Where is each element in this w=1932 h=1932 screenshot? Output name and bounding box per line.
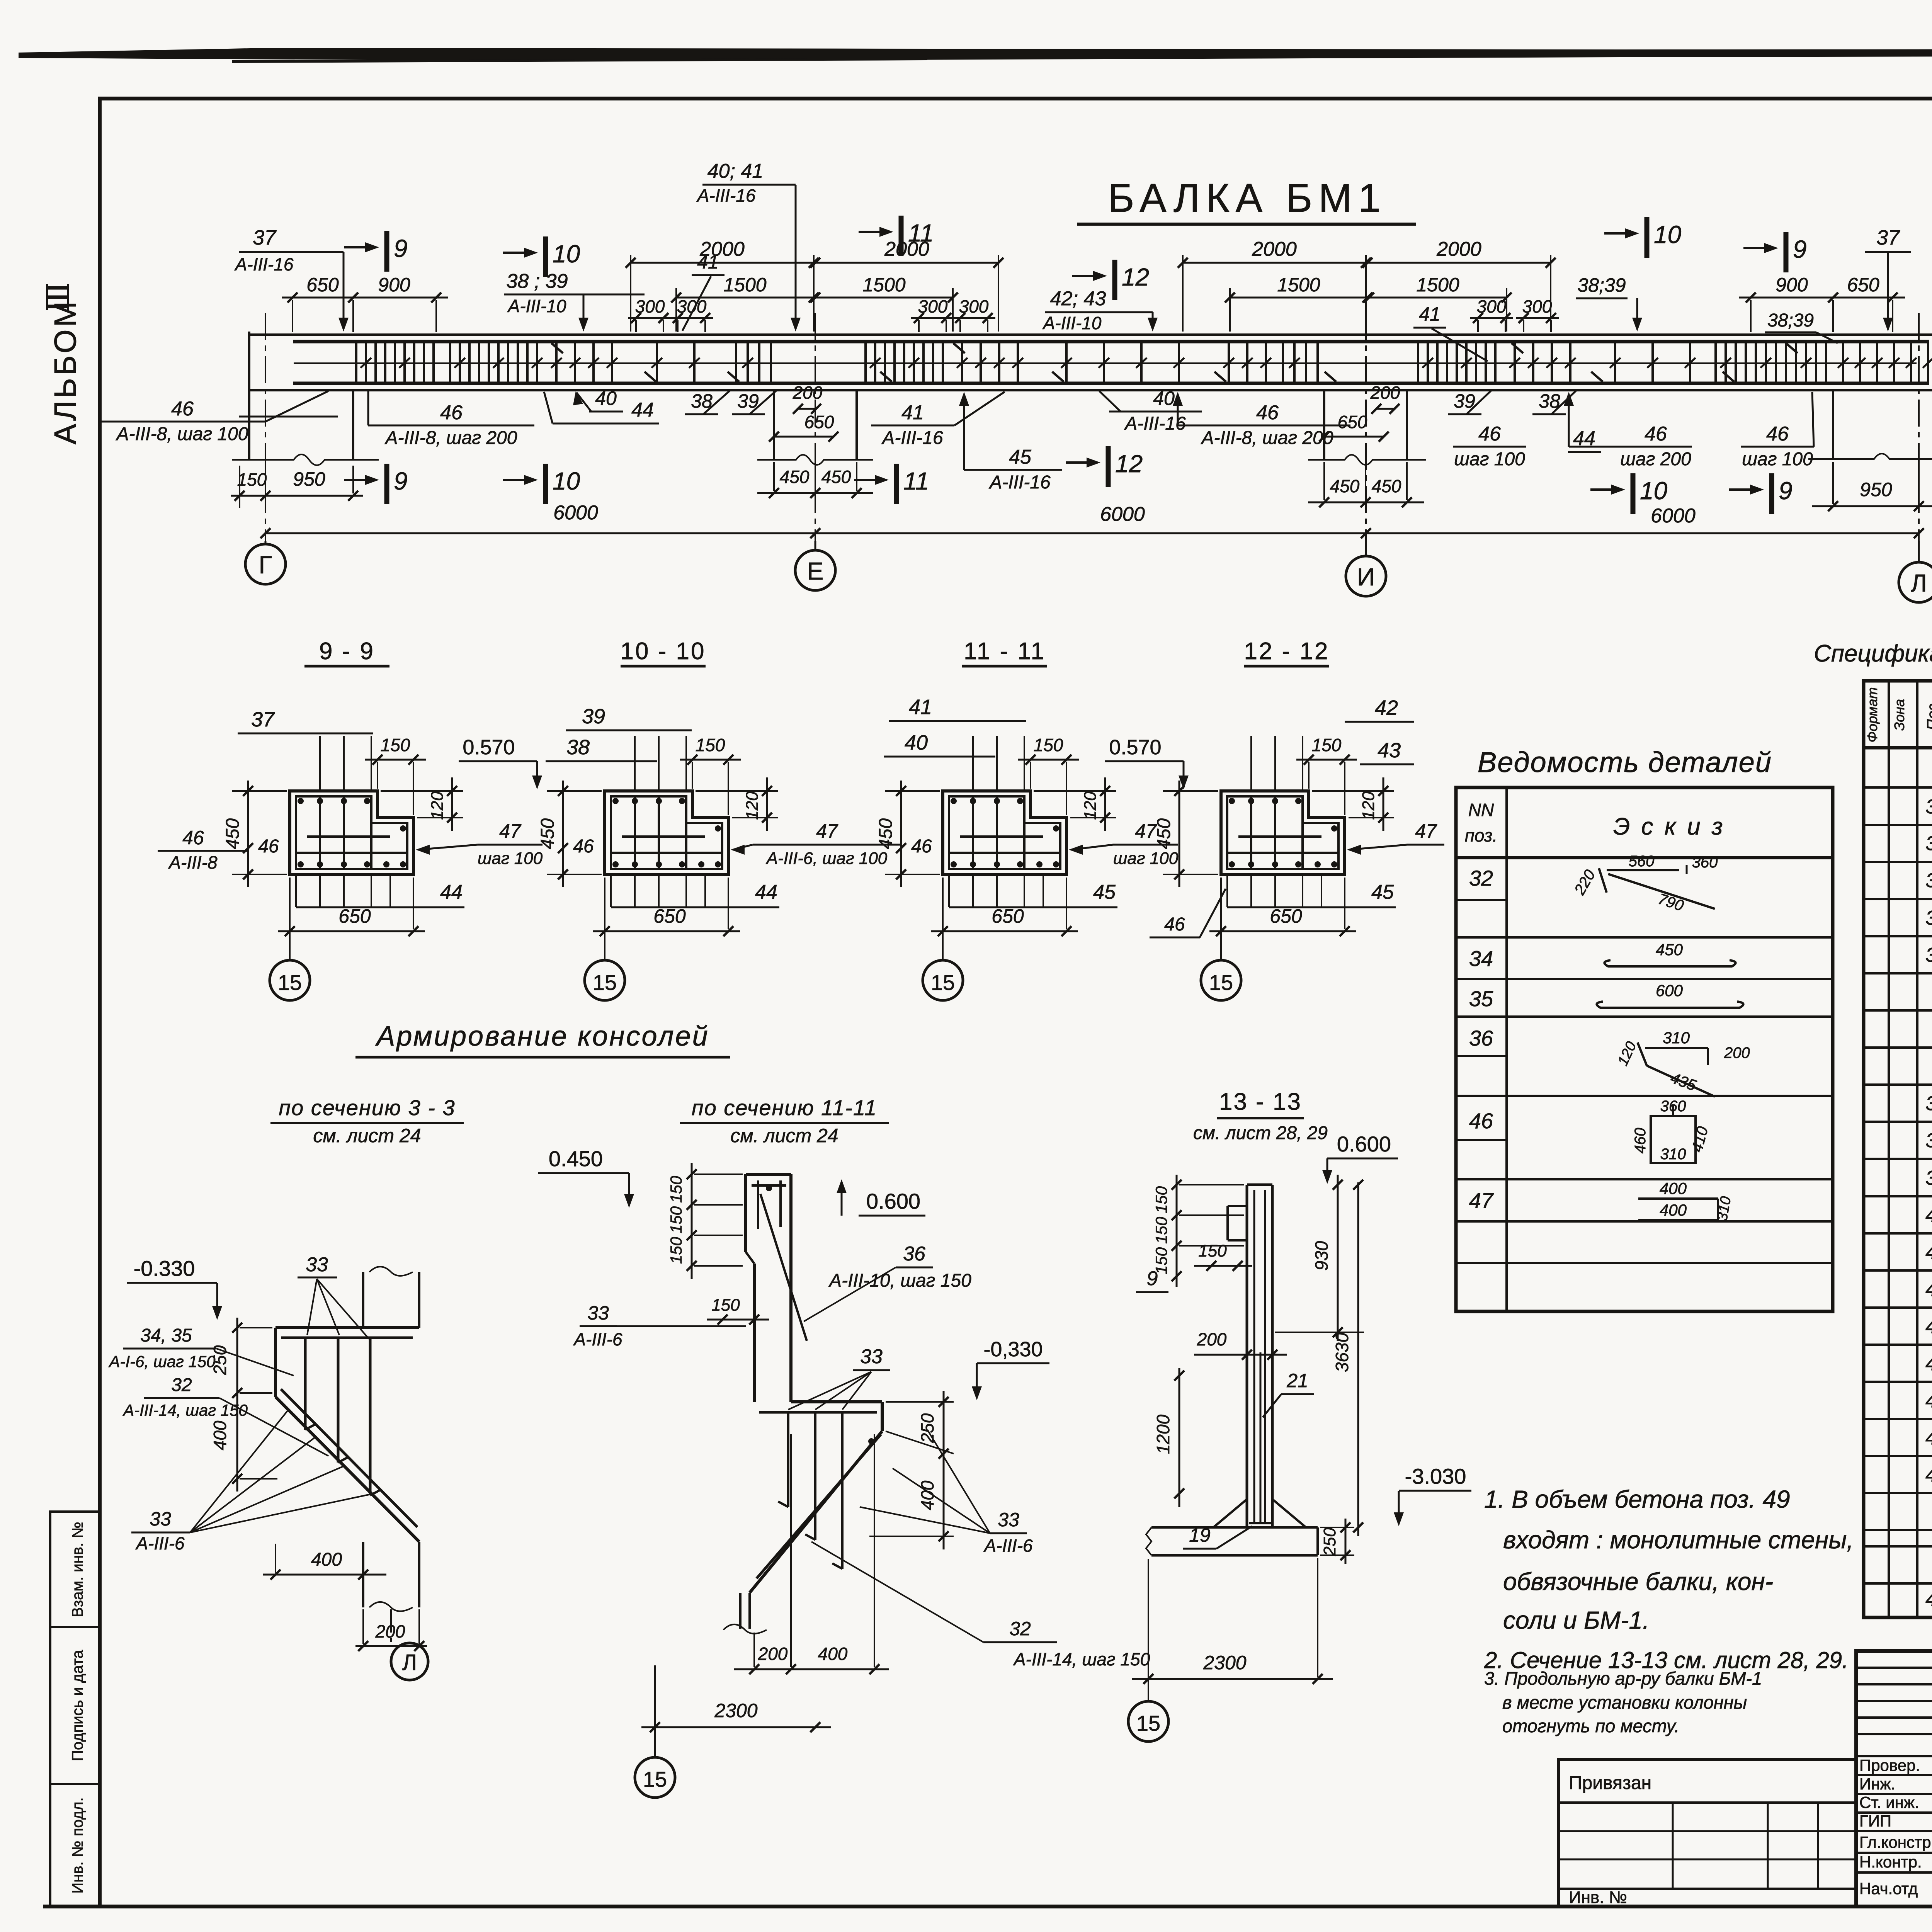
svg-text:32: 32 xyxy=(1009,1618,1031,1639)
svg-text:0.570: 0.570 xyxy=(1109,736,1161,759)
svg-text:Л: Л xyxy=(1911,569,1927,597)
svg-text:310: 310 xyxy=(1663,1029,1690,1047)
svg-text:200: 200 xyxy=(1197,1329,1227,1349)
svg-text:6000: 6000 xyxy=(1651,505,1696,527)
svg-text:входят : монолитные стены,: входят : монолитные стены, xyxy=(1503,1526,1854,1554)
svg-text:А-III-16: А-III-16 xyxy=(988,472,1051,493)
svg-text:соли и БМ-1.: соли и БМ-1. xyxy=(1503,1606,1650,1634)
svg-text:11 - 11: 11 - 11 xyxy=(964,638,1046,665)
svg-text:13 - 13: 13 - 13 xyxy=(1219,1088,1302,1115)
svg-text:38 ; 39: 38 ; 39 xyxy=(506,270,568,293)
svg-text:40: 40 xyxy=(905,731,928,754)
svg-text:И: И xyxy=(1357,563,1375,591)
svg-text:А-III-8, шаг 100: А-III-8, шаг 100 xyxy=(116,424,248,444)
svg-text:120: 120 xyxy=(743,791,762,820)
svg-text:0.570: 0.570 xyxy=(463,736,515,759)
svg-text:33: 33 xyxy=(1925,832,1932,855)
svg-text:шаг 100: шаг 100 xyxy=(1742,449,1813,469)
svg-text:41: 41 xyxy=(901,401,924,424)
svg-text:35: 35 xyxy=(1469,986,1493,1011)
svg-text:150: 150 xyxy=(1152,1186,1170,1213)
svg-text:А-III-6: А-III-6 xyxy=(135,1533,185,1553)
svg-text:Л: Л xyxy=(402,1650,417,1675)
svg-text:1500: 1500 xyxy=(1277,274,1320,296)
svg-text:34: 34 xyxy=(1469,946,1493,971)
svg-text:А-III-16: А-III-16 xyxy=(696,185,756,206)
svg-text:950: 950 xyxy=(1860,479,1892,500)
svg-text:А-III-6, шаг 100: А-III-6, шаг 100 xyxy=(765,849,888,868)
svg-text:по сечению 11-11: по сечению 11-11 xyxy=(692,1095,877,1120)
svg-text:37: 37 xyxy=(253,226,277,249)
svg-text:0.450: 0.450 xyxy=(549,1146,603,1171)
svg-text:120: 120 xyxy=(428,791,447,820)
svg-text:49: 49 xyxy=(1925,1588,1932,1611)
svg-text:43: 43 xyxy=(1378,739,1401,762)
svg-text:46: 46 xyxy=(258,836,279,857)
svg-text:Инж.: Инж. xyxy=(1859,1775,1895,1793)
svg-text:950: 950 xyxy=(293,468,325,490)
svg-text:46: 46 xyxy=(1645,423,1667,445)
svg-text:450: 450 xyxy=(1656,940,1683,959)
svg-text:38: 38 xyxy=(1925,1129,1932,1152)
svg-text:41: 41 xyxy=(1925,1241,1932,1264)
svg-text:1500: 1500 xyxy=(1416,274,1459,296)
svg-text:650: 650 xyxy=(653,905,686,927)
svg-text:47: 47 xyxy=(499,820,522,842)
svg-text:-0,330: -0,330 xyxy=(983,1338,1043,1361)
svg-text:9: 9 xyxy=(1793,235,1807,263)
svg-text:Г: Г xyxy=(259,551,272,579)
svg-text:11: 11 xyxy=(903,467,929,495)
svg-text:650: 650 xyxy=(306,274,339,296)
svg-text:А-III-6: А-III-6 xyxy=(573,1329,622,1349)
svg-text:300: 300 xyxy=(959,296,989,316)
svg-text:32: 32 xyxy=(1469,866,1493,890)
svg-text:33: 33 xyxy=(150,1508,171,1530)
svg-text:10: 10 xyxy=(553,240,580,268)
svg-text:38: 38 xyxy=(566,736,590,759)
svg-text:400: 400 xyxy=(210,1420,230,1450)
svg-text:38;39: 38;39 xyxy=(1767,310,1814,331)
svg-text:44: 44 xyxy=(1925,1352,1932,1375)
svg-text:-3.030: -3.030 xyxy=(1405,1464,1466,1488)
svg-text:150: 150 xyxy=(667,1236,685,1264)
svg-text:42; 43: 42; 43 xyxy=(1050,287,1106,310)
svg-text:200: 200 xyxy=(758,1644,788,1664)
svg-text:250: 250 xyxy=(210,1345,230,1375)
svg-text:46: 46 xyxy=(171,398,194,420)
svg-text:11: 11 xyxy=(908,219,934,247)
svg-text:12: 12 xyxy=(1122,263,1149,291)
svg-text:46: 46 xyxy=(573,836,594,857)
svg-text:47: 47 xyxy=(1415,820,1437,842)
svg-text:40: 40 xyxy=(1153,388,1175,409)
svg-text:1500: 1500 xyxy=(723,274,766,296)
svg-text:450: 450 xyxy=(1154,818,1174,849)
svg-text:200: 200 xyxy=(375,1621,405,1641)
svg-text:А-III-16: А-III-16 xyxy=(234,254,294,274)
svg-text:0.600: 0.600 xyxy=(866,1189,920,1213)
svg-text:10: 10 xyxy=(1640,477,1668,505)
svg-text:А-I-6, шаг 150: А-I-6, шаг 150 xyxy=(108,1352,216,1371)
svg-text:АЛЬБОМ: АЛЬБОМ xyxy=(48,299,82,445)
svg-text:150: 150 xyxy=(1152,1216,1170,1244)
svg-text:41: 41 xyxy=(697,251,719,273)
svg-text:21: 21 xyxy=(1286,1370,1308,1391)
svg-text:9: 9 xyxy=(394,467,408,495)
svg-text:300: 300 xyxy=(1522,296,1552,316)
svg-text:150: 150 xyxy=(667,1206,685,1233)
svg-text:46: 46 xyxy=(1256,401,1279,424)
svg-text:35: 35 xyxy=(1925,907,1932,929)
svg-text:200: 200 xyxy=(1370,383,1400,403)
svg-text:см. лист 28, 29: см. лист 28, 29 xyxy=(1193,1123,1328,1143)
svg-text:9: 9 xyxy=(1779,477,1793,505)
svg-text:9: 9 xyxy=(1147,1267,1158,1290)
svg-text:Формат: Формат xyxy=(1864,687,1880,743)
svg-text:3630: 3630 xyxy=(1332,1332,1352,1372)
svg-text:Привязан: Привязан xyxy=(1569,1773,1651,1793)
svg-text:БАЛКА БМ1: БАЛКА БМ1 xyxy=(1108,176,1386,221)
svg-text:200: 200 xyxy=(793,383,823,403)
svg-text:400: 400 xyxy=(1660,1179,1687,1197)
svg-text:А-III-10, шаг 150: А-III-10, шаг 150 xyxy=(828,1270,971,1291)
svg-text:3. Продольную ар-ру балки Б: 3. Продольную ар-ру балки БМ-1 xyxy=(1484,1668,1762,1689)
svg-text:см. лист 24: см. лист 24 xyxy=(730,1125,838,1146)
svg-text:33: 33 xyxy=(587,1302,609,1324)
svg-text:Ведомость деталей: Ведомость деталей xyxy=(1478,746,1772,778)
svg-text:в месте установки колонны: в месте установки колонны xyxy=(1502,1692,1747,1713)
svg-text:шаг 100: шаг 100 xyxy=(478,849,543,868)
svg-text:6000: 6000 xyxy=(1100,503,1145,526)
svg-text:15: 15 xyxy=(1209,970,1233,995)
svg-text:Е: Е xyxy=(807,557,824,585)
svg-text:46: 46 xyxy=(1469,1109,1493,1133)
svg-text:39: 39 xyxy=(582,705,605,728)
svg-text:150: 150 xyxy=(1198,1242,1227,1260)
svg-text:300: 300 xyxy=(635,296,665,316)
svg-text:45: 45 xyxy=(1009,446,1032,468)
svg-text:Взам. инв. №: Взам. инв. № xyxy=(69,1522,86,1617)
svg-text:930: 930 xyxy=(1311,1241,1332,1270)
svg-text:150: 150 xyxy=(667,1175,685,1203)
svg-text:А-III-10: А-III-10 xyxy=(507,296,566,316)
svg-text:360: 360 xyxy=(1692,854,1718,871)
svg-text:Н.контр.: Н.контр. xyxy=(1859,1853,1922,1871)
svg-text:300: 300 xyxy=(1477,296,1507,316)
svg-text:900: 900 xyxy=(378,274,410,296)
svg-text:9: 9 xyxy=(394,235,408,262)
svg-text:А-III-16: А-III-16 xyxy=(881,428,943,448)
svg-text:15: 15 xyxy=(643,1767,667,1791)
svg-text:400: 400 xyxy=(818,1644,848,1664)
svg-text:см. лист 24: см. лист 24 xyxy=(313,1125,421,1146)
svg-text:1500: 1500 xyxy=(862,274,905,296)
svg-text:200: 200 xyxy=(1724,1044,1750,1061)
svg-text:450: 450 xyxy=(223,818,243,849)
svg-text:10 - 10: 10 - 10 xyxy=(620,638,706,665)
svg-text:150: 150 xyxy=(1312,735,1342,755)
svg-text:шаг 200: шаг 200 xyxy=(1620,449,1691,469)
svg-text:250: 250 xyxy=(1320,1527,1339,1556)
svg-text:43: 43 xyxy=(1925,1315,1932,1338)
svg-text:450: 450 xyxy=(821,467,851,487)
svg-text:Провер.: Провер. xyxy=(1859,1756,1920,1774)
svg-text:33: 33 xyxy=(860,1345,883,1368)
svg-text:47: 47 xyxy=(1469,1188,1494,1213)
svg-text:10: 10 xyxy=(1654,221,1682,248)
svg-text:650: 650 xyxy=(1338,412,1367,432)
svg-text:2300: 2300 xyxy=(1203,1652,1246,1673)
svg-text:15: 15 xyxy=(931,970,955,995)
svg-text:2300: 2300 xyxy=(714,1700,757,1721)
svg-text:650: 650 xyxy=(1270,905,1302,927)
svg-text:36: 36 xyxy=(1469,1026,1493,1050)
svg-text:36: 36 xyxy=(903,1243,925,1265)
svg-text:32: 32 xyxy=(171,1375,192,1395)
svg-text:37: 37 xyxy=(1876,226,1900,249)
svg-text:Спецификация монолитных стен,: Спецификация монолитных стен, обвязочных… xyxy=(1814,640,1932,667)
svg-text:650: 650 xyxy=(804,412,834,432)
svg-text:32: 32 xyxy=(1925,796,1932,818)
svg-text:150: 150 xyxy=(237,469,267,490)
svg-text:отогнуть по месту.: отогнуть по месту. xyxy=(1502,1716,1679,1736)
svg-text:39: 39 xyxy=(1925,1167,1932,1189)
svg-text:А-III-14, шаг 150: А-III-14, шаг 150 xyxy=(1013,1649,1150,1669)
svg-text:650: 650 xyxy=(992,905,1024,927)
svg-text:460: 460 xyxy=(1632,1128,1649,1154)
svg-text:40; 41: 40; 41 xyxy=(707,160,764,182)
svg-text:46: 46 xyxy=(182,827,204,849)
svg-text:по сечению 3 - 3: по сечению 3 - 3 xyxy=(279,1095,455,1120)
svg-text:19: 19 xyxy=(1189,1524,1211,1546)
svg-text:150: 150 xyxy=(696,735,725,755)
svg-text:46: 46 xyxy=(911,836,932,857)
svg-text:46: 46 xyxy=(1766,423,1789,445)
svg-text:Поз.: Поз. xyxy=(1924,699,1932,731)
svg-text:12 - 12: 12 - 12 xyxy=(1244,638,1329,665)
svg-text:1. В объем бетона поз. 49: 1. В объем бетона поз. 49 xyxy=(1484,1485,1790,1513)
svg-text:45: 45 xyxy=(1371,881,1394,903)
svg-text:поз.: поз. xyxy=(1465,825,1498,845)
svg-text:47: 47 xyxy=(1925,1464,1932,1486)
svg-text:45: 45 xyxy=(1925,1389,1932,1412)
svg-text:А-III-10: А-III-10 xyxy=(1042,313,1102,333)
svg-text:34, 35: 34, 35 xyxy=(140,1325,192,1346)
svg-text:0.600: 0.600 xyxy=(1337,1132,1391,1156)
svg-text:300: 300 xyxy=(918,296,948,316)
svg-text:6000: 6000 xyxy=(553,502,598,524)
svg-text:40: 40 xyxy=(1925,1204,1932,1226)
svg-text:Зона: Зона xyxy=(1891,699,1907,731)
svg-text:120: 120 xyxy=(1081,791,1100,820)
svg-text:обвязочные балки, кон-: обвязочные балки, кон- xyxy=(1503,1568,1773,1595)
svg-text:44: 44 xyxy=(755,881,777,903)
svg-text:250: 250 xyxy=(917,1413,937,1443)
svg-text:150: 150 xyxy=(1034,735,1063,755)
svg-text:9 - 9: 9 - 9 xyxy=(319,638,375,665)
svg-text:560: 560 xyxy=(1629,853,1655,870)
svg-text:-0.330: -0.330 xyxy=(134,1256,195,1281)
svg-text:шаг 100: шаг 100 xyxy=(1454,449,1525,469)
svg-text:450: 450 xyxy=(780,467,810,487)
svg-text:46: 46 xyxy=(1925,1427,1932,1449)
svg-text:41: 41 xyxy=(909,696,932,719)
svg-text:Нач.отд: Нач.отд xyxy=(1859,1879,1918,1898)
svg-text:15: 15 xyxy=(278,970,302,995)
svg-text:42: 42 xyxy=(1375,696,1398,719)
svg-text:ГИП: ГИП xyxy=(1859,1812,1891,1830)
svg-text:А-III-8: А-III-8 xyxy=(168,852,218,872)
svg-text:37: 37 xyxy=(251,708,275,731)
svg-text:12: 12 xyxy=(1115,450,1143,478)
svg-text:37: 37 xyxy=(1925,1092,1932,1115)
svg-text:А-III-8, шаг 200: А-III-8, шаг 200 xyxy=(1201,428,1333,448)
svg-text:450: 450 xyxy=(1372,476,1401,496)
svg-text:650: 650 xyxy=(338,905,371,927)
svg-text:46: 46 xyxy=(1478,423,1501,445)
svg-text:41: 41 xyxy=(1419,303,1440,325)
svg-text:150: 150 xyxy=(711,1296,740,1315)
svg-text:400: 400 xyxy=(1660,1201,1687,1219)
svg-text:40: 40 xyxy=(595,388,617,409)
svg-text:44: 44 xyxy=(631,399,654,421)
svg-text:44: 44 xyxy=(1573,427,1595,450)
svg-text:15: 15 xyxy=(593,970,617,995)
svg-text:900: 900 xyxy=(1776,274,1808,296)
svg-text:33: 33 xyxy=(998,1509,1019,1531)
svg-text:46: 46 xyxy=(1164,914,1185,935)
svg-text:Ст. инж.: Ст. инж. xyxy=(1859,1793,1919,1811)
svg-text:44: 44 xyxy=(440,881,463,903)
svg-text:600: 600 xyxy=(1656,981,1683,1000)
svg-text:Армирование консолей: Армирование консолей xyxy=(375,1021,709,1052)
svg-text:42: 42 xyxy=(1925,1278,1932,1301)
svg-text:400: 400 xyxy=(311,1549,342,1570)
svg-text:36: 36 xyxy=(1925,944,1932,966)
svg-text:47: 47 xyxy=(816,820,838,842)
svg-text:А-III-6: А-III-6 xyxy=(983,1536,1033,1556)
svg-text:1200: 1200 xyxy=(1153,1414,1173,1454)
svg-text:33: 33 xyxy=(306,1253,328,1276)
svg-text:А-III-8, шаг 200: А-III-8, шаг 200 xyxy=(384,428,517,448)
svg-text:Подпись и дата: Подпись и дата xyxy=(69,1650,86,1761)
svg-text:310: 310 xyxy=(1660,1146,1686,1163)
svg-text:120: 120 xyxy=(1359,791,1378,820)
svg-text:34: 34 xyxy=(1925,869,1932,892)
svg-text:Гл.констр: Гл.констр xyxy=(1859,1833,1931,1851)
svg-text:450: 450 xyxy=(1330,476,1360,496)
svg-text:Инв. №: Инв. № xyxy=(1569,1888,1627,1907)
svg-text:2000: 2000 xyxy=(1436,238,1481,260)
svg-text:2000: 2000 xyxy=(1252,238,1297,260)
svg-text:450: 450 xyxy=(537,818,558,849)
svg-text:46: 46 xyxy=(440,401,463,424)
svg-text:15: 15 xyxy=(1136,1711,1160,1735)
svg-text:Инв. № подл.: Инв. № подл. xyxy=(69,1797,86,1893)
svg-text:шаг 100: шаг 100 xyxy=(1113,849,1179,868)
svg-text:650: 650 xyxy=(1847,274,1879,296)
svg-text:45: 45 xyxy=(1093,881,1116,903)
svg-text:450: 450 xyxy=(876,818,896,849)
svg-text:NN: NN xyxy=(1468,800,1494,820)
svg-text:10: 10 xyxy=(553,467,580,495)
svg-text:Э с к и з: Э с к и з xyxy=(1613,813,1725,840)
svg-text:150: 150 xyxy=(381,735,410,755)
svg-text:А-III-16: А-III-16 xyxy=(1124,413,1186,434)
svg-text:38;39: 38;39 xyxy=(1577,274,1626,296)
